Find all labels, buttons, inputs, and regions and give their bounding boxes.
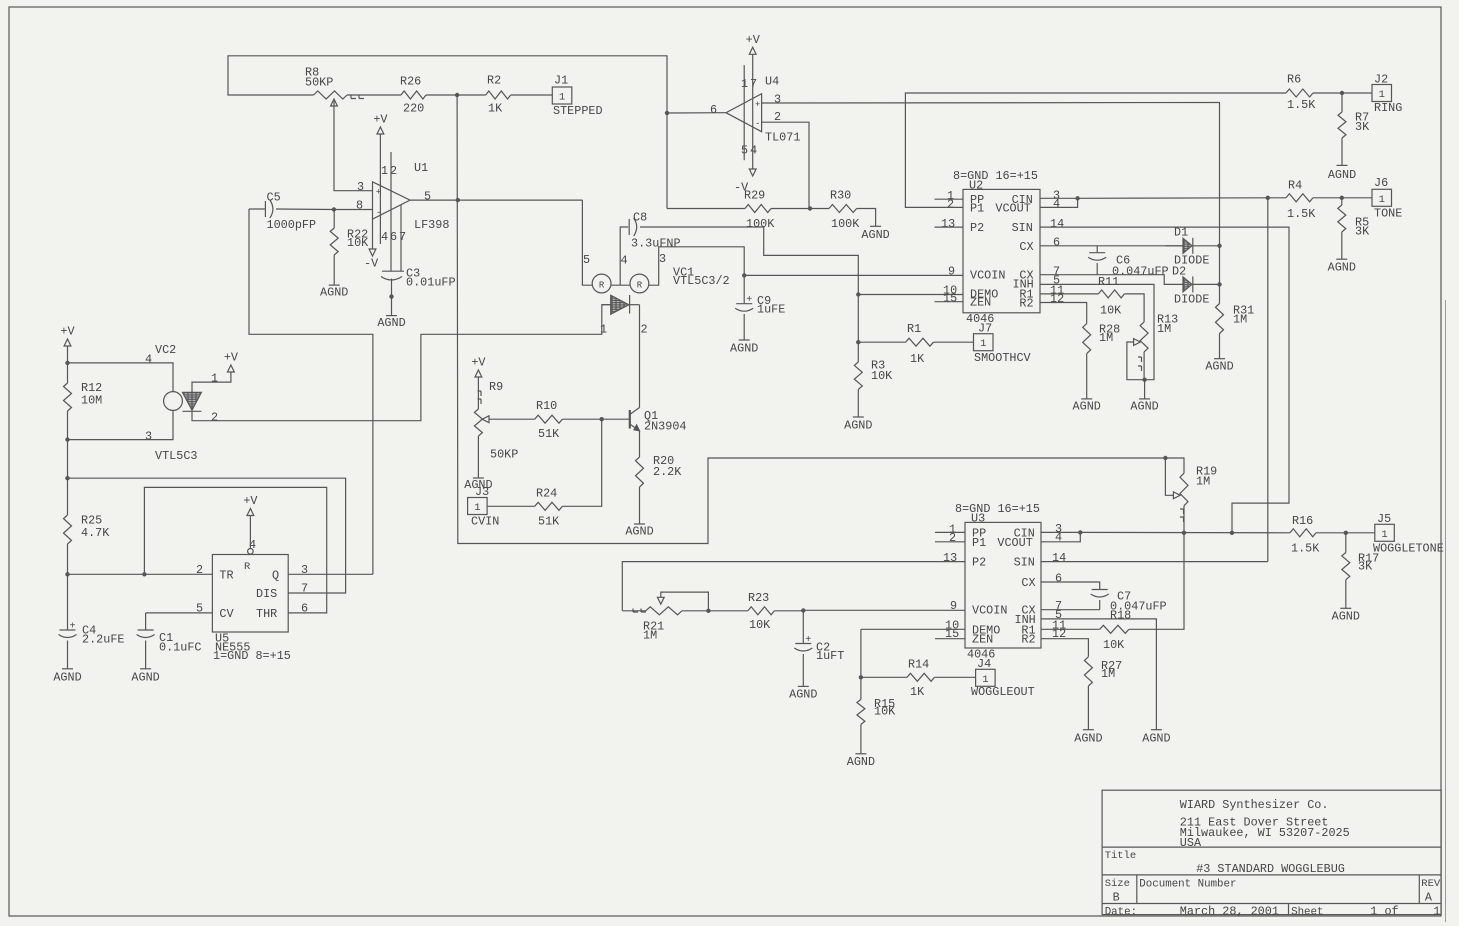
- wire U3 pin11 to R18: [1041, 628, 1100, 630]
- svg-text:-: -: [755, 119, 760, 129]
- svg-text:R10: R10: [536, 399, 557, 413]
- timer U5 NE555 box: [212, 555, 288, 633]
- wire R9 to AGND: [477, 436, 479, 478]
- optocoupler VC1 photocell 2: [630, 274, 649, 293]
- svg-text:4: 4: [750, 144, 757, 158]
- svg-text:1 of: 1 of: [1370, 904, 1398, 918]
- svg-text:6: 6: [710, 103, 717, 117]
- node junction U1 output / feedback: [456, 198, 460, 202]
- svg-text:U1: U1: [414, 161, 428, 175]
- pin line U4 pins 1/5: [743, 65, 745, 160]
- svg-text:+V: +V: [243, 494, 258, 508]
- wire diode column down to R31: [1219, 246, 1221, 304]
- svg-text:+: +: [805, 635, 811, 646]
- resistor R26 220: [401, 91, 426, 99]
- node junction +V/R12/pin4: [65, 361, 69, 365]
- wire R30 to AGND: [857, 209, 876, 227]
- wire U4 out down to R29: [666, 113, 668, 209]
- svg-text:J1: J1: [554, 74, 568, 88]
- node junction R12 bottom/pin3: [65, 437, 69, 441]
- svg-text:-V: -V: [364, 256, 379, 270]
- svg-text:6: 6: [1053, 236, 1060, 250]
- ground AGND below R5: [1341, 232, 1343, 259]
- wire VC2 LED pin2 to VC1 LED pin1: [192, 305, 611, 421]
- svg-text:0.047uFP: 0.047uFP: [1112, 264, 1169, 278]
- resistor R10 51K: [535, 415, 563, 423]
- wire CV row: [146, 612, 213, 614]
- wire U5 Q output to LED drive net: [288, 573, 373, 575]
- svg-text:1uFE: 1uFE: [757, 303, 785, 317]
- wire C8 right to R3/R1 node: [640, 227, 858, 295]
- svg-text:TR: TR: [219, 568, 233, 582]
- svg-text:1: 1: [600, 323, 607, 337]
- potentiometer R19 1M: [1180, 473, 1188, 506]
- node junction DEMO net: [856, 292, 860, 296]
- svg-text:5: 5: [424, 190, 431, 204]
- page edge shadow right: [1445, 300, 1447, 922]
- svg-text:R11: R11: [1098, 275, 1119, 289]
- node junction R19 top: [1163, 456, 1167, 460]
- wire CIN row to TONE: [1078, 197, 1268, 200]
- svg-text:1=GND 8=+15: 1=GND 8=+15: [213, 649, 291, 663]
- svg-text:1uFT: 1uFT: [816, 649, 844, 663]
- svg-text:10K: 10K: [871, 369, 893, 383]
- diode D2: [1183, 277, 1192, 292]
- wire VC1 pin4 riser to C8: [620, 227, 628, 285]
- svg-text:REV: REV: [1421, 878, 1441, 890]
- wire VC1 between photocells: [611, 284, 630, 286]
- svg-text:15: 15: [943, 292, 957, 306]
- svg-text:1M: 1M: [1101, 667, 1115, 681]
- resistor R29 100K: [667, 208, 745, 210]
- svg-text:1000pFP: 1000pFP: [267, 218, 317, 232]
- potentiometer R13 1M: [1140, 322, 1148, 352]
- wire Q1 collector to VC1 pin2: [639, 305, 641, 408]
- svg-text:R1: R1: [907, 322, 921, 336]
- ground AGND below R13: [1144, 380, 1146, 399]
- ground AGND below R15: [860, 724, 862, 753]
- svg-text:+: +: [755, 100, 760, 110]
- wire U2 pin15 stub: [935, 301, 964, 303]
- resistor R7 3K: [1341, 93, 1343, 112]
- optocoupler VC1 photocell 1: [592, 274, 611, 293]
- node junction Q1 base: [600, 417, 604, 421]
- resistor R25 4.7K: [67, 478, 69, 515]
- node junction R29/R30: [808, 206, 812, 210]
- svg-text:VTL5C3: VTL5C3: [155, 449, 197, 463]
- wire R21 left terminal: [622, 610, 645, 612]
- node junction J5/R17: [1344, 531, 1348, 535]
- svg-text:AGND: AGND: [844, 419, 872, 433]
- wire VCOIN row to U2 pin9: [744, 274, 963, 276]
- ground AGND below R28: [1086, 354, 1088, 399]
- wire R26 to junction: [426, 94, 457, 96]
- connector J6 TONE: [1372, 189, 1392, 206]
- resistor R31 1M: [1216, 304, 1224, 334]
- svg-text:1K: 1K: [488, 102, 503, 116]
- svg-text:VTL5C3/2: VTL5C3/2: [673, 274, 730, 288]
- svg-text:3: 3: [357, 180, 364, 194]
- node junction C3/pin6: [389, 294, 393, 298]
- svg-text:AGND: AGND: [131, 671, 159, 685]
- node junction THR riser on TR row: [142, 572, 146, 576]
- wire VC2 LED pin1 to +V: [192, 372, 231, 392]
- node junction C2/VCOIN: [801, 608, 805, 612]
- optocoupler VC2 LED: [183, 392, 202, 410]
- wire R1 row: [858, 341, 905, 343]
- svg-text:1: 1: [1433, 904, 1440, 918]
- pin line U1 pins 2/6: [390, 152, 392, 271]
- svg-text:DIODE: DIODE: [1174, 293, 1209, 307]
- pin line U1 pin 7: [400, 205, 402, 271]
- connector J2 RING: [1372, 85, 1392, 102]
- svg-text:5: 5: [583, 253, 590, 267]
- svg-text:AGND: AGND: [730, 342, 758, 356]
- node junction CIN/VCOUT: [1075, 196, 1079, 200]
- svg-text:Sheet: Sheet: [1291, 906, 1323, 918]
- svg-text:2: 2: [641, 322, 648, 336]
- wire R18 up to CIN row: [1129, 533, 1184, 630]
- node junction J6/R5: [1340, 196, 1344, 200]
- wire R9 wiper to R10: [489, 418, 535, 420]
- ground AGND below R7: [1341, 138, 1343, 165]
- node junction TR net: [65, 572, 69, 576]
- svg-text:TONE: TONE: [1374, 206, 1402, 220]
- wire U2 pin7 CX row to D2: [1040, 275, 1183, 285]
- svg-text:R9: R9: [489, 380, 503, 394]
- svg-text:1: 1: [381, 164, 388, 178]
- wire R21 to R23: [682, 610, 748, 612]
- wire U2 pin12 to R28: [1040, 303, 1087, 324]
- svg-text:P2: P2: [972, 556, 986, 570]
- wire VC1 pin3 riser: [649, 247, 744, 285]
- wire U3 pin1 stub: [935, 531, 965, 533]
- svg-text:10K: 10K: [1100, 303, 1122, 317]
- svg-text:1: 1: [559, 92, 565, 104]
- wire U4 inverting input to R29/R30: [762, 122, 809, 208]
- svg-text:AGND: AGND: [377, 316, 405, 330]
- capacitor C7 0.047uFP: [1092, 589, 1108, 591]
- svg-text:0.01uFP: 0.01uFP: [406, 275, 456, 289]
- node junction D1 cathode: [1217, 244, 1221, 248]
- svg-text:R26: R26: [400, 74, 421, 88]
- wire R8 to R26: [347, 94, 401, 96]
- svg-text:R: R: [244, 561, 251, 573]
- wire Q1 emitter to R20: [639, 431, 641, 457]
- svg-text:5: 5: [196, 601, 203, 615]
- svg-text:AGND: AGND: [847, 755, 875, 769]
- svg-text:Milwaukee, WI 53207-2025: Milwaukee, WI 53207-2025: [1180, 826, 1350, 840]
- svg-text:13: 13: [941, 217, 955, 231]
- wire R19 wiper to top junction: [1165, 458, 1173, 495]
- ground AGND below R31: [1219, 334, 1221, 359]
- capacitor C8 3.3uFNP: [628, 219, 630, 235]
- svg-text:1.5K: 1.5K: [1287, 207, 1316, 221]
- svg-text:50KP: 50KP: [305, 76, 333, 90]
- svg-text:1M: 1M: [643, 629, 657, 643]
- node junction VCOIN/C9: [742, 273, 746, 277]
- wire U3 pin5 INH to AGND: [1041, 619, 1156, 730]
- svg-text:SIN: SIN: [1014, 556, 1035, 570]
- svg-text:1M: 1M: [1099, 331, 1113, 345]
- ground AGND below C4: [62, 668, 73, 670]
- svg-text:220: 220: [403, 102, 424, 116]
- svg-text:1: 1: [1381, 529, 1387, 541]
- svg-text:2: 2: [211, 411, 218, 425]
- svg-text:VCOUT: VCOUT: [997, 536, 1032, 550]
- wire U2 pin3 CIN out: [1040, 197, 1078, 199]
- wire U2 pin6 CX row: [1040, 245, 1183, 247]
- svg-text:6: 6: [301, 601, 308, 615]
- svg-text:51K: 51K: [538, 427, 560, 441]
- svg-text:AGND: AGND: [625, 525, 653, 539]
- resistor R16 1.5K: [1290, 529, 1316, 537]
- resistor R1 1K: [906, 338, 934, 346]
- capacitor C3 0.01uFP: [382, 270, 404, 272]
- svg-text:10K: 10K: [874, 705, 896, 719]
- capacitor C9 1uFE: [743, 275, 745, 303]
- svg-text:D1: D1: [1174, 226, 1188, 240]
- svg-text:Date:: Date:: [1105, 906, 1137, 918]
- svg-text:R: R: [637, 281, 643, 291]
- svg-text:AGND: AGND: [53, 671, 81, 685]
- svg-text:March 28, 2001: March 28, 2001: [1180, 904, 1279, 918]
- svg-text:R23: R23: [748, 591, 769, 605]
- wire top feedback from U4 output to R8: [228, 56, 667, 113]
- wire U2 pin4 VCOUT loop: [1040, 198, 1078, 207]
- svg-text:P1: P1: [970, 201, 984, 215]
- wire DEMO riser to R14/R15 node: [860, 629, 862, 677]
- svg-text:7: 7: [750, 77, 757, 91]
- svg-text:A: A: [1425, 890, 1433, 904]
- svg-text:9: 9: [948, 265, 955, 279]
- svg-text:VCOIN: VCOIN: [972, 603, 1007, 617]
- svg-text:7: 7: [301, 582, 308, 596]
- svg-text:VC2: VC2: [155, 343, 176, 357]
- svg-text:R2: R2: [487, 74, 501, 88]
- diode D1: [1165, 245, 1183, 247]
- svg-text:10K: 10K: [749, 618, 771, 632]
- svg-text:R18: R18: [1110, 609, 1131, 623]
- wire U3 pin13 P2 row to R21: [622, 562, 965, 611]
- svg-text:1: 1: [474, 502, 480, 514]
- svg-text:10K: 10K: [1103, 638, 1125, 652]
- svg-text:1M: 1M: [1196, 474, 1210, 488]
- svg-text:R14: R14: [908, 657, 929, 671]
- optocoupler VC1 LED: [611, 295, 629, 314]
- ground AGND below C1: [140, 668, 151, 670]
- wire R19 bottom to CIN row: [1183, 506, 1185, 533]
- svg-text:51K: 51K: [538, 514, 560, 528]
- svg-text:R2: R2: [1019, 297, 1033, 311]
- svg-text:B: B: [1113, 890, 1120, 904]
- ground AGND below R9: [473, 477, 484, 479]
- resistor R12 10M: [67, 363, 69, 383]
- potentiometer R8 50KP: [314, 91, 347, 99]
- svg-text:J5: J5: [1377, 512, 1391, 526]
- wire DEMO row to U2 pin10: [858, 294, 963, 296]
- wire R14 row: [861, 676, 907, 678]
- wire R24 up to base junction: [562, 419, 601, 506]
- svg-text:8=GND 16=+15: 8=GND 16=+15: [955, 502, 1040, 516]
- ground AGND below R27: [1087, 686, 1089, 730]
- svg-text:Document Number: Document Number: [1139, 879, 1236, 891]
- svg-text:+V: +V: [373, 113, 388, 127]
- wire feedback vertical R2 junction down and around to R19: [457, 95, 1165, 544]
- svg-text:VCOUT: VCOUT: [995, 201, 1030, 215]
- capacitor C5 1000pFP: [264, 201, 266, 217]
- svg-text:J6: J6: [1374, 176, 1388, 190]
- svg-text:ZEN: ZEN: [972, 633, 993, 647]
- svg-text:4: 4: [145, 353, 152, 367]
- op-amp U4 TL071: [726, 94, 762, 132]
- wire U3 CIN row to WOGGLETONE: [1080, 531, 1290, 533]
- svg-text:C8: C8: [633, 211, 647, 225]
- wire THR feedback loop: [144, 487, 326, 613]
- svg-text:R4: R4: [1288, 179, 1302, 193]
- svg-text:AGND: AGND: [320, 286, 348, 300]
- wire R6 to J2: [1313, 92, 1372, 94]
- node junction R18 riser on CIN row: [1182, 531, 1186, 535]
- svg-text:AGND: AGND: [1073, 399, 1101, 413]
- svg-text:P1: P1: [972, 536, 986, 550]
- wire U3 pin9 VCOIN row: [803, 609, 965, 611]
- wire R19 top lead: [1165, 458, 1184, 473]
- svg-text:2.2K: 2.2K: [653, 465, 682, 479]
- resistor R5 3K: [1341, 198, 1343, 205]
- wire U2 pin14 SIN to U3 CIN net: [1040, 227, 1289, 533]
- wire R1 to J7: [933, 341, 973, 343]
- svg-text:AGND: AGND: [1332, 609, 1360, 623]
- svg-text:3: 3: [774, 92, 781, 106]
- resistor R18 10K: [1100, 625, 1129, 633]
- svg-text:4: 4: [1053, 197, 1060, 211]
- wire U3 pin2 stub: [935, 541, 965, 543]
- resistor R28 1M: [1083, 324, 1091, 354]
- capacitor C1 0.1uFC: [145, 613, 147, 630]
- resistor R14 1K: [907, 673, 935, 681]
- svg-text:1: 1: [1379, 194, 1385, 206]
- connector J7 SMOOTHCV: [974, 334, 994, 351]
- svg-text:LF398: LF398: [414, 218, 449, 232]
- svg-text:+V: +V: [471, 356, 486, 370]
- resistor R30 100K: [810, 208, 829, 210]
- wire U4 output to top feedback: [667, 112, 726, 114]
- ground AGND below R22: [333, 255, 335, 285]
- ground AGND below C9: [739, 339, 750, 341]
- svg-text:1K: 1K: [910, 685, 925, 699]
- svg-text:1: 1: [1379, 89, 1385, 101]
- svg-text:+V: +V: [746, 33, 761, 47]
- svg-text:+: +: [746, 295, 752, 306]
- node junction U4 output: [665, 111, 669, 115]
- resistor R6 1.5K: [1286, 89, 1313, 97]
- svg-text:100K: 100K: [746, 217, 775, 231]
- wire TONE junction down to U3 SIN: [1267, 198, 1269, 562]
- title block frame: [1102, 790, 1441, 914]
- svg-text:8=GND 16=+15: 8=GND 16=+15: [953, 169, 1038, 183]
- svg-text:4: 4: [381, 230, 388, 244]
- svg-text:AGND: AGND: [1328, 260, 1356, 274]
- connector J4 WOGGLEOUT: [976, 669, 996, 686]
- wire U3 pin10 DEMO row: [861, 628, 965, 630]
- node junction DIS net: [65, 476, 69, 480]
- potentiometer R9 50KP: [474, 409, 482, 436]
- resistor R24 51K: [535, 502, 563, 510]
- node junction U3 CIN/VCOUT: [1078, 530, 1082, 534]
- wire R16 to J5: [1316, 532, 1375, 534]
- wire VC2 pin3 row: [68, 410, 174, 439]
- svg-text:WOGGLEOUT: WOGGLEOUT: [971, 685, 1035, 699]
- connector J5 WOGGLETONE: [1375, 524, 1395, 541]
- svg-text:1: 1: [980, 338, 986, 350]
- svg-text:CX: CX: [1021, 576, 1035, 590]
- wire U3 pin4 VCOUT loop: [1041, 532, 1080, 541]
- svg-text:2.2uFE: 2.2uFE: [82, 633, 124, 647]
- op-amp U1 LF398: [373, 182, 411, 219]
- svg-text:AGND: AGND: [1328, 168, 1356, 182]
- svg-text:3: 3: [659, 252, 666, 266]
- resistor R27 1M: [1084, 657, 1092, 686]
- transistor Q1 2N3904: [629, 410, 631, 429]
- svg-text:CV: CV: [219, 607, 234, 621]
- node junction R13 bottom: [1142, 378, 1146, 382]
- svg-text:10M: 10M: [81, 394, 102, 408]
- svg-text:D2: D2: [1172, 264, 1186, 278]
- svg-text:THR: THR: [256, 607, 277, 621]
- wire junction to U1 pin8: [334, 209, 373, 211]
- resistor R2 1K: [457, 94, 486, 96]
- wire U2 pin5 INH to ground net: [1040, 284, 1154, 379]
- wire U2 pin13 stub: [935, 226, 964, 228]
- svg-text:AGND: AGND: [789, 687, 817, 701]
- wire U2 pin2 to RING row: [905, 93, 1286, 207]
- resistor R11 10K: [1098, 290, 1124, 298]
- svg-text:14: 14: [1050, 217, 1064, 231]
- wire R10 to base junction: [562, 418, 601, 420]
- wire J3 to R24: [488, 505, 535, 507]
- svg-text:R29: R29: [744, 189, 765, 203]
- svg-text:8: 8: [356, 198, 363, 212]
- ground AGND below R17: [1345, 580, 1347, 609]
- svg-text:1.5K: 1.5K: [1291, 542, 1320, 556]
- svg-text:1M: 1M: [1157, 322, 1171, 336]
- ground AGND below R30: [870, 225, 881, 227]
- svg-text:U4: U4: [765, 75, 779, 89]
- svg-text:+V: +V: [60, 325, 75, 339]
- svg-text:AGND: AGND: [1205, 360, 1233, 374]
- ground AGND below U3 INH: [1151, 729, 1162, 731]
- svg-text:Q: Q: [272, 568, 279, 582]
- svg-text:3K: 3K: [1358, 560, 1373, 574]
- wire U1 output row: [410, 199, 582, 201]
- wire R13 wiper loop to bottom: [1127, 342, 1145, 380]
- wire VC1 pin5 riser from U1 output: [582, 200, 592, 285]
- svg-text:C5: C5: [267, 190, 281, 204]
- svg-text:R2: R2: [1021, 633, 1035, 647]
- wire U3 pin6 CX to C7: [1041, 582, 1100, 590]
- svg-text:WIARD Synthesizer Co.: WIARD Synthesizer Co.: [1180, 798, 1329, 812]
- svg-text:50KP: 50KP: [490, 447, 518, 461]
- svg-text:AGND: AGND: [1130, 399, 1158, 413]
- svg-text:TL071: TL071: [765, 130, 800, 144]
- svg-text:P2: P2: [970, 221, 984, 235]
- svg-text:4046: 4046: [966, 312, 994, 326]
- node junction D2 cathode: [1217, 282, 1221, 286]
- svg-text:CX: CX: [1019, 240, 1033, 254]
- svg-text:J4: J4: [977, 657, 991, 671]
- svg-text:AGND: AGND: [861, 228, 889, 242]
